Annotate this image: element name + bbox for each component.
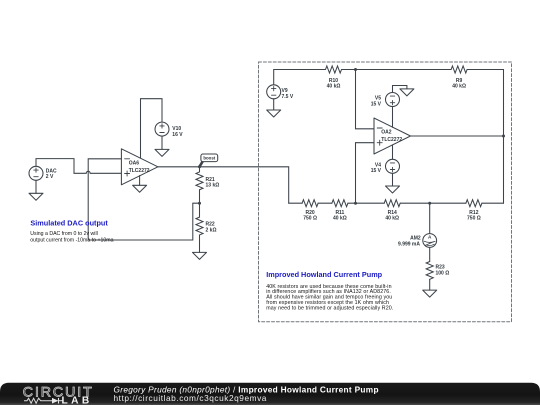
- ground below OA6: [133, 185, 147, 192]
- dashed enclosure: Improved Howland Current Pump: [259, 62, 512, 322]
- ground above-right of V5: [400, 89, 414, 96]
- resistor R22 2k: [196, 203, 216, 252]
- wire V5- to OA2 V+ pin: [392, 107, 394, 128]
- svg-text:40 kΩ: 40 kΩ: [333, 215, 347, 221]
- resistor R14 40k: [384, 200, 400, 222]
- svg-text:750 Ω: 750 Ω: [303, 215, 317, 221]
- wire R9 to output node: [467, 70, 503, 137]
- ground below DAC: [29, 193, 43, 200]
- ground below V4: [386, 186, 400, 193]
- wire R14 to R12: [400, 202, 466, 204]
- wire V10+ to OA6 V+ pin: [141, 99, 163, 158]
- svg-text:Using a DAC from 0 to 2v will: Using a DAC from 0 to 2v will: [30, 231, 97, 237]
- wire R20 to R11: [318, 202, 332, 204]
- wire OA2 output to output node: [411, 135, 504, 137]
- footer credits text: [114, 385, 379, 403]
- wire OA6 output to right section (boost net): [158, 167, 289, 203]
- svg-text:40 kΩ: 40 kΩ: [452, 83, 466, 89]
- svg-text:15 V: 15 V: [371, 168, 382, 174]
- resistor R9 40k: [451, 66, 467, 89]
- op-amp OA2 TLC2272: [374, 118, 411, 154]
- svg-text:15 V: 15 V: [371, 101, 382, 107]
- svg-text:A: A: [428, 235, 432, 240]
- wire top junction to OA2 inverting input: [356, 70, 375, 129]
- wire DAC+ to OA6 noninverting input (with hop over feedback wire): [36, 159, 121, 174]
- svg-text:2 kΩ: 2 kΩ: [206, 227, 217, 233]
- annotation paragraph: [266, 284, 393, 312]
- resistor R21 13k: [196, 167, 219, 203]
- svg-text:LAB: LAB: [62, 396, 93, 405]
- resistor R20 750: [302, 200, 318, 222]
- CircuitLab logo: [23, 385, 94, 405]
- svg-text:2 V: 2 V: [46, 174, 54, 180]
- wire OA2 noninverting input down to bottom rail: [356, 143, 375, 204]
- wire R10 to R9: [342, 69, 452, 71]
- wire load node to ammeter: [429, 203, 431, 234]
- svg-text:OA2: OA2: [381, 130, 392, 136]
- svg-text:13 kΩ: 13 kΩ: [206, 183, 220, 189]
- resistor R10 40k: [326, 66, 342, 89]
- svg-text:7.5 V: 7.5 V: [282, 94, 294, 100]
- svg-text:40 kΩ: 40 kΩ: [385, 215, 399, 221]
- resistor R11 40k: [332, 200, 348, 222]
- wire V5+ to ground: [393, 86, 407, 93]
- wire R12 to output node vertical: [482, 202, 504, 204]
- junction top rail / OA2 inverting branch: [354, 68, 357, 71]
- svg-text:http://circuitlab.com/c3qcuk2q: http://circuitlab.com/c3qcuk2q9emva: [114, 393, 267, 403]
- svg-text:40 kΩ: 40 kΩ: [327, 83, 341, 89]
- svg-text:may need to be trimmed or adju: may need to be trimmed or adjusted espec…: [266, 305, 393, 311]
- junction load node: [428, 202, 431, 205]
- svg-text:Simulated DAC output: Simulated DAC output: [30, 218, 108, 227]
- svg-text:100 Ω: 100 Ω: [436, 270, 450, 276]
- junction output node: [502, 135, 505, 138]
- svg-text:Improved Howland Current Pump: Improved Howland Current Pump: [266, 270, 382, 279]
- voltage source V4 15V: [371, 159, 400, 186]
- voltage source V5 15V: [371, 93, 400, 108]
- junction bottom rail / OA2 + branch: [354, 202, 357, 205]
- voltage source V10 16V: [155, 122, 183, 149]
- voltage source V9 7.5V: [267, 85, 294, 110]
- svg-text:TLC2272: TLC2272: [381, 137, 402, 143]
- annotation: Simulated DAC output: [30, 218, 113, 243]
- wire feedback: R21/R22 tap to OA6 inverting input: [88, 159, 199, 240]
- ammeter AM2 9.999mA: [398, 234, 437, 248]
- resistor R23 100: [426, 247, 449, 290]
- ground below R23: [423, 290, 437, 297]
- svg-text:boost: boost: [203, 156, 215, 161]
- wire OA2 V- pin to V4: [392, 145, 394, 159]
- voltage source DAC 2V: [29, 166, 57, 193]
- wire R11 to R14: [348, 202, 384, 204]
- svg-text:OA6: OA6: [129, 161, 140, 167]
- node boost (label flag + junction): [198, 154, 218, 168]
- junction R21/R22/feedback: [198, 202, 201, 205]
- svg-text:9.999 mA: 9.999 mA: [398, 242, 420, 248]
- op-amp OA6 TLC2272: [121, 149, 157, 185]
- ground below V9: [267, 110, 281, 117]
- resistor R12 750: [466, 200, 482, 222]
- OA6 V- pin stub: [139, 176, 141, 186]
- wire V9+ to R10: [274, 70, 326, 85]
- annotation: Improved Howland Current Pump: [266, 270, 382, 279]
- ground below R22: [193, 252, 207, 259]
- svg-text:TLC2272: TLC2272: [129, 168, 150, 174]
- svg-text:output current from -10ma to +: output current from -10ma to +10ma: [30, 237, 113, 243]
- svg-text:16 V: 16 V: [172, 132, 183, 138]
- wire bottom rail left segment: [289, 202, 302, 204]
- wire output node down to R12: [503, 136, 505, 203]
- svg-text:750 Ω: 750 Ω: [467, 215, 481, 221]
- ground below V10: [155, 149, 169, 156]
